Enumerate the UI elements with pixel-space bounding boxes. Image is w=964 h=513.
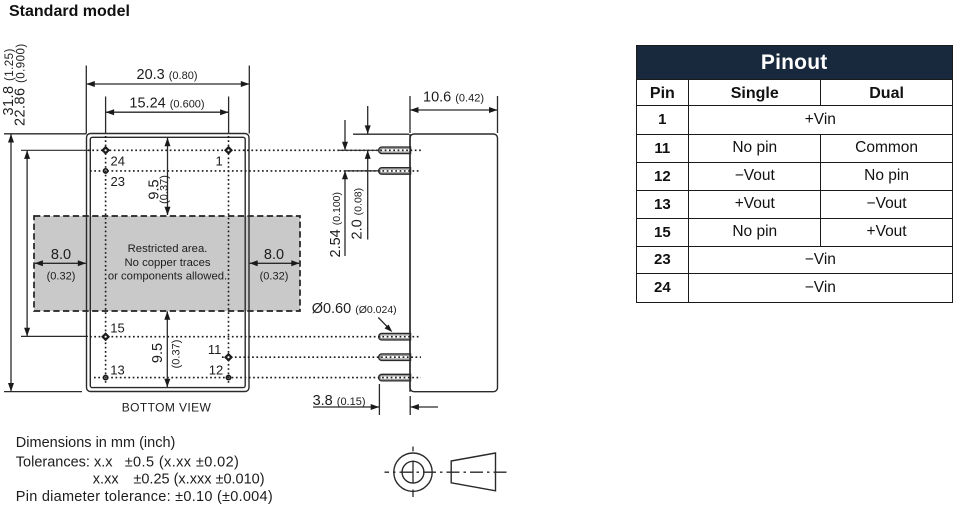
pin 15 marker (diamond) bbox=[101, 332, 110, 341]
restricted area text bbox=[108, 243, 227, 283]
pin 23 marker (donut) bbox=[104, 169, 108, 173]
side view pin row5 bbox=[379, 374, 411, 381]
pin side-view cone bbox=[451, 453, 495, 491]
pin 11 marker (diamond) bbox=[224, 353, 233, 362]
svg-text:Tolerances: x.x: Tolerances: x.x bbox=[16, 454, 113, 470]
pin 24 marker (diamond) bbox=[101, 146, 110, 155]
restricted area (gray) bbox=[34, 216, 300, 311]
svg-text:±0.5 (x.xx ±0.02): ±0.5 (x.xx ±0.02) bbox=[125, 454, 240, 470]
svg-text:x.xx: x.xx bbox=[93, 472, 120, 488]
svg-text:13: 13 bbox=[110, 363, 124, 378]
svg-text:No copper traces: No copper traces bbox=[124, 257, 210, 269]
side view pin row1 bbox=[379, 147, 411, 154]
svg-text:15.24 (0.600): 15.24 (0.600) bbox=[129, 96, 204, 112]
dim 22.86 row extensions bbox=[21, 149, 88, 151]
tolerance note text bbox=[16, 435, 273, 505]
dotted row pin 23 bbox=[90, 170, 421, 172]
svg-text:(0.37): (0.37) bbox=[158, 175, 170, 204]
dim 2.0 top extension bbox=[353, 133, 409, 135]
dim 9.5 top line bbox=[167, 138, 169, 215]
dim 10.6 line bbox=[410, 109, 498, 111]
dim 31.8 bottom extension bbox=[4, 391, 82, 393]
svg-text:12: 12 bbox=[209, 363, 223, 378]
centerline vertical (dash-dot) bbox=[412, 447, 414, 498]
svg-text:11: 11 bbox=[208, 342, 222, 357]
svg-text:(0.32): (0.32) bbox=[47, 271, 76, 283]
svg-text:Pin diameter tolerance: ±0.10: Pin diameter tolerance: ±0.10 (±0.004) bbox=[16, 489, 273, 505]
svg-text:1: 1 bbox=[216, 154, 223, 169]
pin 13 marker (donut) bbox=[104, 376, 108, 380]
side view body bbox=[410, 134, 498, 392]
pin number labels bbox=[110, 154, 223, 378]
svg-text:Standard model: Standard model bbox=[9, 3, 130, 20]
module outline inner bbox=[90, 137, 245, 387]
row23 solid segment near side view bbox=[345, 170, 378, 172]
svg-text:(0.37): (0.37) bbox=[171, 340, 183, 369]
side view pin row2 bbox=[379, 168, 411, 175]
dim 3.8 arrow lines bbox=[313, 406, 379, 408]
svg-text:2.54 (0.100): 2.54 (0.100) bbox=[328, 192, 344, 258]
dotted column right pins bbox=[228, 136, 230, 385]
svg-text:(0.32): (0.32) bbox=[260, 271, 289, 283]
svg-text:±0.25 (x.xxx ±0.010): ±0.25 (x.xxx ±0.010) bbox=[133, 472, 264, 488]
svg-text:8.0: 8.0 bbox=[51, 247, 71, 263]
svg-text:23: 23 bbox=[111, 174, 125, 189]
pin cross-section symbol: outer circle bbox=[394, 453, 432, 491]
dotted column left pins bbox=[105, 136, 107, 385]
dim 2.0 arrow lines bbox=[367, 106, 369, 134]
svg-text:24: 24 bbox=[111, 154, 125, 169]
side view pin row4 bbox=[379, 354, 411, 361]
svg-text:2.0 (0.08): 2.0 (0.08) bbox=[350, 188, 366, 240]
dim 8.0 left line bbox=[35, 262, 86, 264]
dotted construction lines bbox=[88, 136, 421, 385]
svg-text:20.3 (0.80): 20.3 (0.80) bbox=[137, 67, 198, 83]
dim 22.86 line bbox=[26, 150, 28, 336]
dim 9.5 bottom line bbox=[166, 311, 168, 387]
svg-text:Restricted area.: Restricted area. bbox=[128, 243, 208, 255]
dotted row pin 11 bbox=[222, 356, 421, 358]
dim 20.3 line bbox=[86, 83, 249, 85]
dim 8.0 right line bbox=[250, 262, 300, 264]
dim 15.24 line bbox=[106, 111, 229, 113]
pin 12 marker (donut) bbox=[226, 376, 230, 380]
svg-text:3.8 (0.15): 3.8 (0.15) bbox=[313, 393, 366, 409]
svg-text:BOTTOM VIEW: BOTTOM VIEW bbox=[122, 401, 212, 415]
row1 solid segment near side view bbox=[338, 149, 378, 151]
svg-text:Dimensions in mm (inch): Dimensions in mm (inch) bbox=[16, 435, 176, 451]
dim 2.54 arrow lines bbox=[344, 120, 346, 150]
svg-text:10.6 (0.42): 10.6 (0.42) bbox=[423, 90, 484, 106]
dim 10.6 extension lines bbox=[410, 96, 498, 133]
svg-text:Ø0.60 (Ø0.024): Ø0.60 (Ø0.024) bbox=[312, 301, 397, 317]
dia 0.60 leader arrow bbox=[378, 318, 389, 329]
side view pin row3 bbox=[379, 333, 411, 340]
dotted row pin 15 bbox=[90, 336, 421, 338]
dim 3.8 extension lines bbox=[379, 384, 410, 415]
dotted row pins 24/1 bbox=[88, 149, 421, 151]
svg-text:or components allowed.: or components allowed. bbox=[108, 271, 227, 283]
centerline horizontal (dash-dot) bbox=[385, 471, 511, 473]
module outline outer (bottom view) bbox=[87, 134, 250, 392]
pin 1 marker (diamond) bbox=[224, 146, 233, 155]
dim 15.24 extension lines bbox=[106, 97, 229, 134]
svg-text:8.0: 8.0 bbox=[264, 247, 284, 263]
svg-text:15: 15 bbox=[110, 321, 124, 336]
pin cross-section symbol: inner circle bbox=[402, 461, 424, 483]
dim 31.8 top extension bbox=[4, 133, 87, 135]
svg-text:22.86 (0.900): 22.86 (0.900) bbox=[13, 43, 29, 126]
dim 20.3 extension lines bbox=[86, 66, 249, 134]
dotted row pins 13/12 bbox=[94, 377, 421, 379]
dim 31.8 line bbox=[10, 134, 12, 392]
side view left edge over pins bbox=[409, 134, 411, 392]
pinout table bbox=[636, 45, 953, 303]
svg-text:9.5: 9.5 bbox=[150, 343, 166, 363]
